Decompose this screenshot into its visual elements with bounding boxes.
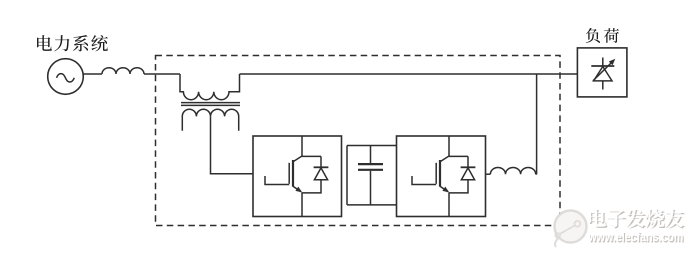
label 负荷 (load) <box>586 28 619 43</box>
DC link top rail <box>347 145 397 147</box>
load valve diagonal arrow <box>593 62 612 81</box>
watermark logo <box>555 211 587 248</box>
wire L2 up to line <box>535 74 538 174</box>
AC source G1 <box>48 59 84 95</box>
load valve triangle <box>594 67 612 81</box>
DC link bottom rail <box>347 204 397 206</box>
converter U1 IGBT <box>265 136 328 217</box>
wire converter 2 to L2 <box>486 173 491 175</box>
top wire to load <box>240 73 578 75</box>
converter U2 IGBT <box>412 136 475 217</box>
converter U1 box <box>253 136 342 217</box>
DC link left rail <box>346 146 348 205</box>
transformer core <box>181 103 240 106</box>
inductor L1 <box>102 68 144 74</box>
load box <box>577 48 627 97</box>
capacitor C1 plates <box>358 164 383 170</box>
transformer T1 primary <box>180 74 240 100</box>
AC tilde <box>57 74 75 82</box>
svg-text:www.elecfans.com: www.elecfans.com <box>588 230 684 244</box>
wire L1 to transformer <box>144 73 180 75</box>
inductor L2 <box>490 167 535 174</box>
wire source to L1 <box>83 73 102 75</box>
watermark 电子发烧友 <box>589 209 685 229</box>
load valve cathode bar <box>591 65 614 67</box>
capacitor C1 leads <box>370 146 372 205</box>
transformer T1 secondary <box>182 109 238 130</box>
load valve lead <box>602 58 604 90</box>
wire secondary tap to converter 1 <box>211 116 254 173</box>
dashed compensator enclosure <box>156 56 561 226</box>
label 电力系统 (power system) <box>37 35 108 51</box>
converter U2 box <box>397 136 486 217</box>
